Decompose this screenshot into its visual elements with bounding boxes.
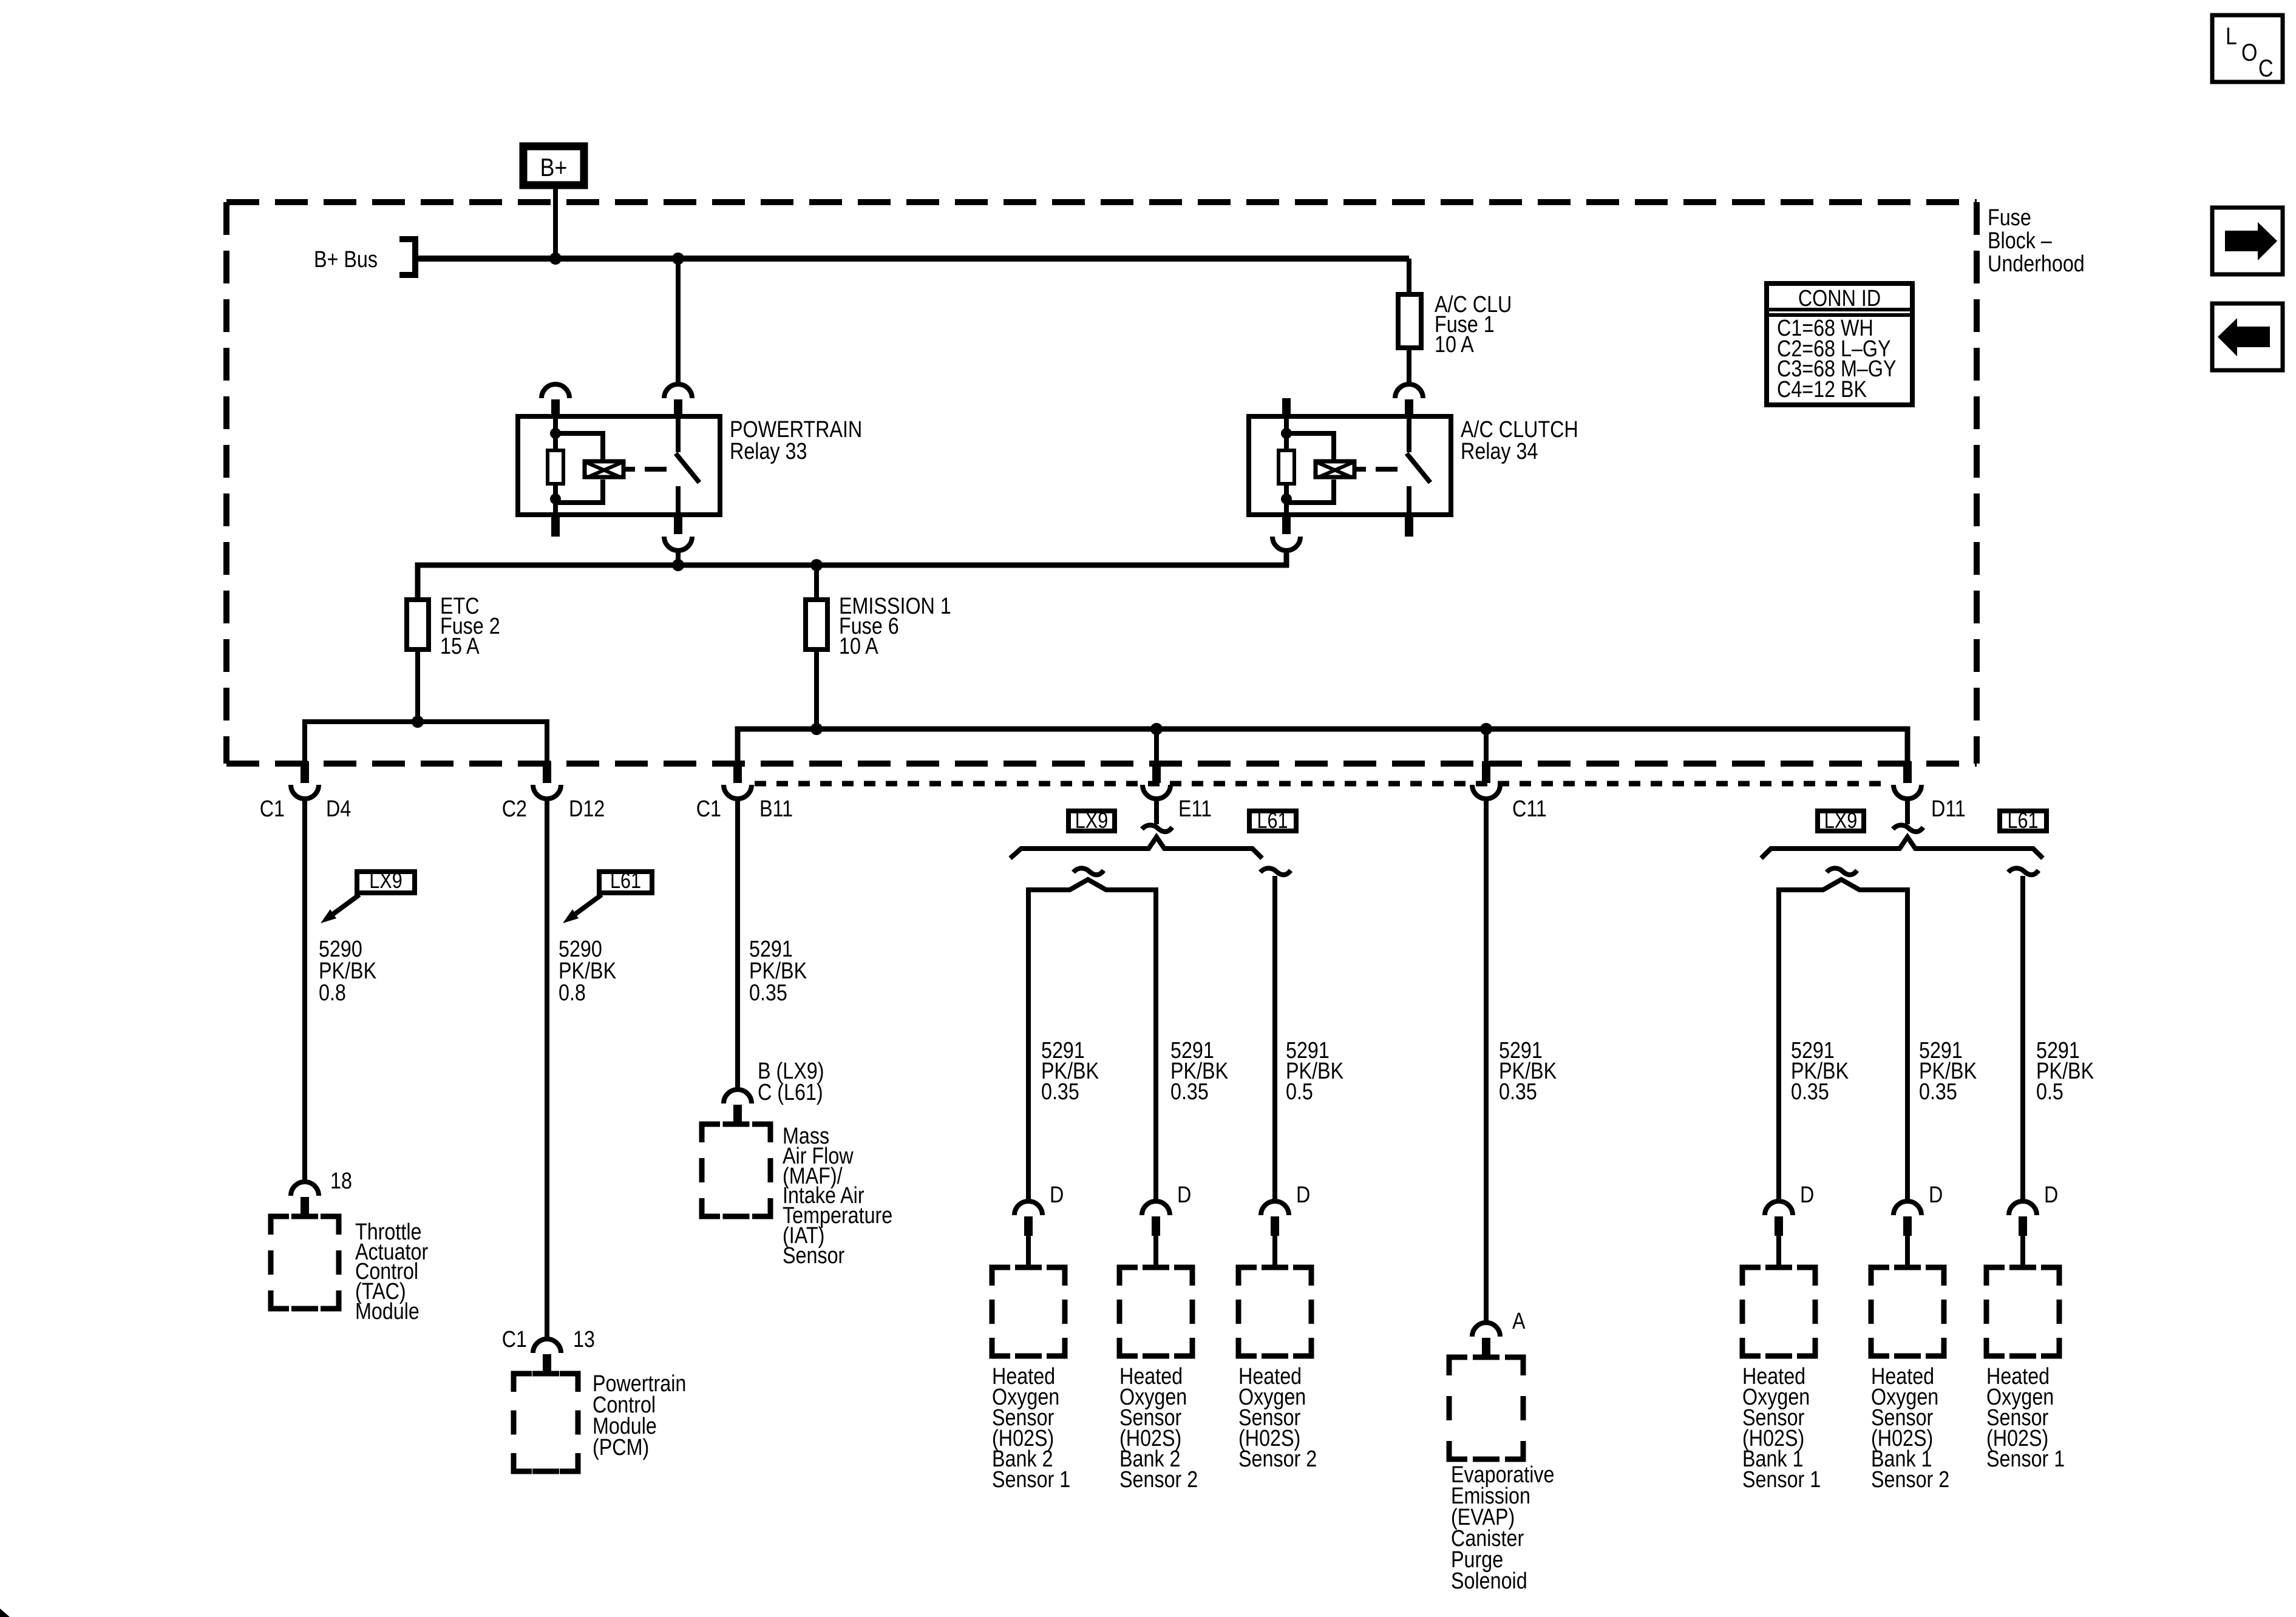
linkage dash relay 34 (1376, 467, 1398, 472)
wire HO2S bank 2 sensor 1 pigtail (1026, 1236, 1031, 1267)
wire L61 branch (E11) (1272, 876, 1277, 1201)
label pin D HO2S bank 1 sensor 1 (1800, 1182, 1814, 1208)
svg-text:D: D (1050, 1182, 1064, 1208)
tag L61 (E11) (1249, 809, 1296, 833)
connector EVAP pin A (1472, 1323, 1500, 1357)
svg-text:B+ Bus: B+ Bus (314, 247, 378, 273)
wire relay 34 coil internal (1284, 419, 1289, 450)
svg-text:Relay 33: Relay 33 (730, 439, 807, 464)
wire bus to fuse 1 (1407, 259, 1411, 294)
wire HO2S sensor 1 pigtail (2020, 1236, 2025, 1267)
label wire 5291 hos b2s2 (1170, 1038, 1229, 1105)
label pin D HO2S bank 1 sensor 2 (1929, 1182, 1943, 1208)
wire L61 branch (D11) (2020, 876, 2025, 1201)
connector HO2S bank 2 sensor 1 pin D (1014, 1201, 1042, 1236)
resistor relay 34 (1279, 450, 1294, 484)
fuse F6 EMISSION 1 (806, 600, 827, 649)
solenoid EVAP dashed box (1449, 1357, 1523, 1459)
sensor HO2S bank 1 sensor 2 dashed box (1871, 1267, 1944, 1356)
pin relay 33 coil return stub (551, 515, 560, 537)
engine harness dotted line (755, 781, 1890, 787)
sensor HO2S bank 1 sensor 1 dashed box (1742, 1267, 1815, 1356)
label connector C11 (1512, 796, 1547, 822)
label wire 5291 hos b2s1 (1041, 1038, 1099, 1105)
B+ power feed box (523, 146, 584, 185)
svg-text:D4: D4 (326, 796, 351, 822)
svg-text:B11: B11 (759, 796, 793, 822)
label HO2S bank 2 sensor 2 (1119, 1364, 1198, 1493)
wire relay 33 switch feed (676, 259, 681, 385)
tag LX9 (E11) (1068, 809, 1115, 833)
svg-text:0.35: 0.35 (1499, 1079, 1537, 1105)
wire E11 to brace (1154, 799, 1159, 824)
wire fuse 6 output (814, 649, 819, 729)
label wire 5291 B11 (749, 937, 807, 1006)
svg-text:0.5: 0.5 (2036, 1079, 2063, 1105)
label pin D HO2S sensor 2 (1296, 1182, 1310, 1208)
label wire 5291 hos b1s2 (1919, 1038, 1977, 1105)
wire fuse 1 to relay 34 switch (1407, 348, 1411, 385)
svg-text:LX9: LX9 (1824, 809, 1857, 833)
wire relay 34 coil branch (1286, 433, 1334, 503)
svg-text:18: 18 (330, 1168, 352, 1194)
connector HO2S sensor 1 pin D (2009, 1201, 2037, 1236)
junction distribution E11 (1150, 723, 1163, 735)
svg-text:D: D (2044, 1182, 2058, 1208)
svg-text:Fuse: Fuse (1988, 205, 2031, 231)
fuse F2 ETC (407, 600, 429, 649)
label pin A EVAP (1512, 1309, 1526, 1334)
connector relay 34 switch pin (1395, 384, 1423, 419)
label HO2S sensor 2 (1238, 1364, 1317, 1472)
svg-text:Relay 34: Relay 34 (1461, 439, 1538, 464)
splice break D11 (1893, 825, 1923, 832)
connector TAC pin 18 (291, 1182, 319, 1216)
svg-text:E11: E11 (1178, 796, 1212, 822)
label HO2S sensor 1 (1986, 1364, 2065, 1472)
svg-text:10 A: 10 A (1435, 332, 1474, 358)
svg-text:0.35: 0.35 (1170, 1079, 1209, 1105)
label MAF/IAT sensor (783, 1124, 892, 1269)
svg-text:Sensor 2: Sensor 2 (1238, 1446, 1317, 1472)
svg-text:C: C (2258, 54, 2274, 81)
callout LX9 engine (D4 wire) (321, 869, 415, 923)
connector C11 at fuse block (1472, 761, 1500, 799)
label B+ Bus (314, 247, 378, 273)
relay K34 A/C CLUTCH box (1249, 416, 1451, 515)
label pin D HO2S sensor 1 (2044, 1182, 2058, 1208)
wire relay 33 coil stub (625, 467, 635, 472)
label Fuse Block - Underhood (1988, 205, 2085, 277)
svg-text:Sensor 1: Sensor 1 (1742, 1467, 1821, 1493)
module TAC dashed box (271, 1216, 339, 1309)
label wire 5291 hos s1 (2036, 1038, 2094, 1105)
label connector D12 (502, 796, 605, 822)
wire fuse 2 branch line (305, 722, 547, 761)
fuse block underhood dashed border right (1974, 202, 1980, 764)
wire 5290 to PCM (545, 799, 549, 1339)
coil winding relay 33 (585, 461, 623, 478)
connector D12 at fuse block (533, 761, 561, 799)
sensor HO2S sensor 2 dashed box (1238, 1267, 1311, 1356)
svg-text:13: 13 (573, 1327, 595, 1352)
label relay 34 (1461, 417, 1578, 464)
label pin 18 TAC (330, 1168, 352, 1194)
svg-text:D12: D12 (569, 796, 605, 822)
label wire 5291 hos s2 (1286, 1038, 1344, 1105)
junction emission fuse feed (810, 559, 823, 571)
wire relay 33 output (676, 551, 681, 565)
wire relay 33 coil branch (555, 433, 603, 503)
wire 5291 to EVAP (1484, 799, 1489, 1323)
nav arrow left icon (2212, 303, 2283, 370)
wire bus to fuse 6 (814, 565, 819, 600)
svg-text:C (L61): C (L61) (758, 1080, 823, 1105)
label pin D HO2S bank 2 sensor 1 (1050, 1182, 1064, 1208)
table CONN ID box (1767, 283, 1912, 405)
junction relay 34 coil top (1281, 428, 1292, 439)
label wire 5290 D4 (319, 937, 377, 1006)
svg-text:C1: C1 (696, 796, 721, 822)
wire HO2S bank 1 sensor 2 pigtail (1905, 1236, 1910, 1267)
splice break LX9 branch (D11) (1827, 868, 1857, 875)
coil winding relay 34 (1316, 461, 1354, 478)
svg-text:0.8: 0.8 (559, 980, 586, 1006)
label pins B C MAF (758, 1059, 824, 1105)
wire LX9 split tent (D11) (1779, 880, 1907, 1201)
resistor relay 33 (548, 450, 563, 484)
svg-text:0.35: 0.35 (1919, 1079, 1957, 1105)
connector relay 33 switch pin 2 (664, 384, 692, 419)
label wire 5291 hos b1s1 (1791, 1038, 1849, 1105)
svg-text:D11: D11 (1931, 796, 1966, 822)
label conn C1 pin 13 PCM (502, 1327, 595, 1352)
wire B+ feed drop (553, 187, 558, 259)
label HO2S bank 1 sensor 1 (1742, 1364, 1821, 1493)
svg-text:0.35: 0.35 (1041, 1079, 1079, 1105)
label fuse 1 (1435, 292, 1512, 358)
svg-text:Sensor: Sensor (783, 1243, 845, 1269)
svg-text:0.35: 0.35 (749, 980, 787, 1006)
svg-text:C1: C1 (260, 796, 285, 822)
svg-text:0.5: 0.5 (1286, 1079, 1313, 1105)
svg-text:C2: C2 (502, 796, 527, 822)
wire 5290 to TAC (302, 799, 307, 1182)
wire relay 34 coil stub (1356, 467, 1366, 472)
page corner mark (0, 1609, 10, 1617)
table CONN ID header rule (1764, 310, 1915, 315)
junction fuse 2 branch (412, 716, 424, 728)
svg-text:D: D (1929, 1182, 1943, 1208)
svg-text:Sensor 1: Sensor 1 (1986, 1446, 2065, 1472)
svg-text:Block –: Block – (1988, 228, 2052, 254)
svg-text:10 A: 10 A (839, 634, 878, 659)
wire HO2S bank 2 sensor 2 pigtail (1153, 1236, 1158, 1267)
splice break L61 branch (D11) (2008, 868, 2039, 875)
svg-text:LX9: LX9 (369, 869, 402, 893)
label connector E11 (1178, 796, 1212, 822)
wire B+ bus (415, 256, 1409, 262)
svg-text:0.35: 0.35 (1791, 1079, 1829, 1105)
svg-text:C1: C1 (502, 1327, 527, 1352)
brace E11 engine split (1010, 837, 1262, 858)
fuse block underhood dashed border bottom (226, 761, 1977, 767)
wire relay 34 coil bottom (1284, 484, 1289, 515)
label wire 5291 evap (1499, 1038, 1557, 1105)
module PCM dashed box (514, 1374, 578, 1471)
svg-text:C4=12 BK: C4=12 BK (1777, 377, 1867, 402)
svg-text:Solenoid: Solenoid (1451, 1568, 1527, 1594)
svg-text:Underhood: Underhood (1988, 251, 2085, 277)
label HO2S bank 1 sensor 2 (1871, 1364, 1949, 1493)
junction distribution C11 (1480, 723, 1492, 735)
label TAC module (355, 1219, 428, 1324)
wire relay 33 coil bottom (553, 484, 558, 515)
svg-text:D: D (1177, 1182, 1191, 1208)
pin relay 34 switch return stub (1405, 515, 1413, 537)
junction relay 33 coil top (550, 428, 561, 439)
sensor HO2S sensor 1 dashed box (1986, 1267, 2059, 1356)
wire relay output bus (418, 551, 1286, 597)
connector HO2S bank 1 sensor 2 pin D (1894, 1201, 1921, 1236)
svg-text:L: L (2226, 22, 2237, 49)
label EVAP solenoid (1451, 1462, 1555, 1594)
junction relay 33 coil bottom (550, 493, 561, 504)
label connector D11 (1931, 796, 1966, 822)
svg-text:Sensor 2: Sensor 2 (1871, 1467, 1949, 1493)
table CONN ID title (1798, 286, 1881, 311)
wire relay 33 coil internal (553, 419, 558, 450)
connector HO2S bank 2 sensor 2 pin D (1142, 1201, 1170, 1236)
label fuse 2 (440, 594, 500, 659)
sensor HO2S bank 2 sensor 1 dashed box (992, 1267, 1065, 1356)
svg-text:A: A (1512, 1309, 1526, 1334)
sensor HO2S bank 2 sensor 2 dashed box (1119, 1267, 1192, 1356)
connector D4 at fuse block (291, 761, 319, 799)
svg-text:LX9: LX9 (1075, 809, 1108, 833)
fuse F1 A/C CLU (1398, 294, 1421, 348)
connector relay 34 output (1272, 515, 1300, 551)
legend LOC box (2212, 15, 2283, 82)
nav arrow right icon (2212, 208, 2283, 274)
wire C11 drop (1484, 729, 1489, 761)
svg-text:Sensor 2: Sensor 2 (1119, 1467, 1198, 1493)
svg-text:(PCM): (PCM) (593, 1435, 649, 1460)
svg-text:O: O (2241, 38, 2257, 66)
label connector D4 (260, 796, 352, 822)
label connector B11 (696, 796, 793, 822)
relay K33 POWERTRAIN box (518, 416, 720, 515)
svg-text:B+: B+ (540, 154, 568, 181)
splice break LX9 branch (E11) (1073, 868, 1104, 875)
svg-text:Sensor 1: Sensor 1 (992, 1467, 1070, 1493)
svg-text:L61: L61 (2007, 809, 2038, 833)
wire 5291 to MAF (735, 799, 740, 1090)
connector E11 at fuse block (1143, 761, 1170, 799)
label pin D HO2S bank 2 sensor 2 (1177, 1182, 1191, 1208)
table CONN ID rows (1777, 316, 1897, 402)
splice break E11 (1142, 825, 1172, 832)
label PCM module (593, 1371, 686, 1460)
connector HO2S sensor 2 pin D (1261, 1201, 1289, 1236)
svg-text:15 A: 15 A (440, 634, 480, 659)
label relay 33 (730, 417, 862, 464)
svg-text:L61: L61 (1257, 809, 1288, 833)
fuse block underhood dashed border top (226, 199, 1977, 205)
B+ bus terminal bracket (399, 239, 415, 275)
tag L61 (D11) (2000, 809, 2046, 833)
junction relay 34 coil bottom (1281, 493, 1292, 504)
brace D11 engine split (1761, 837, 2043, 858)
connector MAF pin (724, 1090, 752, 1124)
tag LX9 (D11) (1818, 809, 1864, 833)
switch relay 33 (676, 419, 699, 515)
wire D11 to brace (1905, 799, 1910, 824)
wire LX9 split tent (E11) (1028, 880, 1156, 1201)
switch relay 34 (1407, 419, 1430, 515)
connector D11 at fuse block (1894, 761, 1921, 799)
wire E11 drop (1154, 729, 1159, 761)
splice break L61 branch (E11) (1260, 868, 1291, 875)
wire emission distribution line (738, 729, 1907, 761)
connector relay 33 switch output (664, 515, 692, 551)
wire fuse 2 output (415, 649, 420, 722)
svg-text:C11: C11 (1512, 796, 1547, 822)
wire HO2S sensor 2 pigtail (1272, 1236, 1277, 1267)
wire HO2S bank 1 sensor 1 pigtail (1776, 1236, 1781, 1267)
label fuse 6 (839, 594, 951, 659)
junction B+ bus / relay 33 coil feed (549, 253, 562, 265)
sensor MAF/IAT dashed box (702, 1124, 770, 1216)
svg-text:0.8: 0.8 (319, 980, 346, 1006)
svg-text:L61: L61 (610, 869, 641, 893)
connector B11 at fuse block (724, 761, 752, 799)
label wire 5290 D12 (559, 937, 617, 1006)
label HO2S bank 2 sensor 1 (992, 1364, 1070, 1493)
svg-text:Module: Module (355, 1299, 419, 1324)
fuse block underhood dashed border left (223, 202, 229, 764)
junction fuse 6 / distribution (810, 723, 823, 735)
callout L61 engine (D12 wire) (563, 869, 652, 923)
linkage dash relay 33 (645, 467, 667, 472)
connector HO2S bank 1 sensor 1 pin D (1765, 1201, 1793, 1236)
connector PCM pin 13 (533, 1339, 561, 1374)
junction B+ bus / relay 33 switch feed (672, 253, 684, 265)
svg-text:CONN ID: CONN ID (1798, 286, 1881, 311)
pin relay 34 coil top stub (1282, 398, 1291, 419)
connector relay 33 coil pin 1 (542, 384, 569, 419)
svg-text:D: D (1296, 1182, 1310, 1208)
svg-text:D: D (1800, 1182, 1814, 1208)
junction relay 33 output (672, 559, 684, 571)
